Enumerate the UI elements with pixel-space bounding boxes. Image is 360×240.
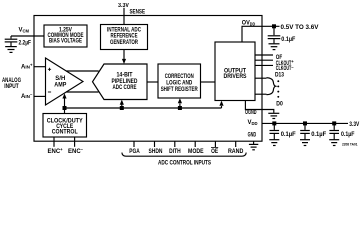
svg-text:GENERATOR: GENERATOR bbox=[110, 40, 138, 46]
wire GND pin bbox=[253, 141, 255, 144]
block: internal ADC reference generator bbox=[101, 25, 148, 50]
svg-text:ADC CORE: ADC CORE bbox=[113, 85, 137, 91]
block: correction logic and shift register bbox=[158, 64, 201, 98]
wire OGND bbox=[245, 101, 273, 113]
wire ENC- pin bbox=[74, 137, 76, 147]
node VDD junction 1 bbox=[272, 121, 276, 125]
svg-text:SHIFT REGISTER: SHIFT REGISTER bbox=[161, 87, 198, 93]
wire MODE pin bbox=[194, 141, 196, 147]
svg-text:PIPELINED: PIPELINED bbox=[112, 79, 139, 85]
svg-text:OVDD: OVDD bbox=[242, 20, 256, 26]
wire ENC+ pin bbox=[53, 137, 55, 147]
block: 1.25V common mode bias voltage bbox=[44, 25, 87, 47]
wire AIN- bbox=[34, 95, 46, 97]
wire VCM bbox=[11, 35, 44, 37]
svg-text:0.1µF: 0.1µF bbox=[281, 132, 296, 138]
node VDD junction 3 bbox=[332, 121, 336, 125]
svg-text:SHDN: SHDN bbox=[149, 149, 163, 155]
wire clock to output drivers bbox=[219, 101, 223, 108]
svg-text:INTERNAL ADC: INTERNAL ADC bbox=[107, 28, 142, 34]
svg-text:CONTROL: CONTROL bbox=[52, 129, 78, 135]
capacitor 0.1uF #1 bbox=[270, 125, 297, 139]
svg-text:PGA: PGA bbox=[129, 149, 140, 155]
node junction at ADC core clock bbox=[120, 106, 124, 110]
wire RAND pin bbox=[235, 141, 237, 147]
wire PGA pin bbox=[133, 141, 135, 147]
node junction at correction clock bbox=[178, 106, 182, 110]
svg-text:DITH: DITH bbox=[169, 149, 181, 155]
svg-text:OGND: OGND bbox=[245, 110, 257, 116]
wire VDD rail bbox=[262, 122, 348, 124]
wire clock to correction logic bbox=[178, 98, 182, 108]
wire OF pin bbox=[255, 54, 273, 56]
wire D13 pin bbox=[255, 77, 267, 79]
svg-text:RAND: RAND bbox=[228, 149, 244, 155]
svg-text:0.1µF: 0.1µF bbox=[281, 37, 295, 43]
node ANALOG INPUT bbox=[2, 78, 21, 90]
ground OGND bbox=[268, 113, 279, 118]
svg-text:ADC CONTROL INPUTS: ADC CONTROL INPUTS bbox=[158, 161, 211, 167]
wire ADC core to correction logic bbox=[147, 81, 158, 83]
chip outline U1 bbox=[34, 16, 262, 142]
svg-text:REFERENCE: REFERENCE bbox=[111, 34, 138, 40]
node clock junction bbox=[63, 106, 67, 110]
svg-text:0.1µF: 0.1µF bbox=[311, 132, 326, 138]
svg-text:LOGIC AND: LOGIC AND bbox=[166, 81, 193, 87]
wire OVDD bbox=[242, 26, 280, 42]
wire clock rail bbox=[65, 107, 222, 109]
wire correction logic to output drivers bbox=[201, 81, 216, 83]
capacitor 0.1uF #2 bbox=[300, 125, 326, 139]
ground for OVDD cap bbox=[269, 44, 280, 50]
svg-text:DRIVERS: DRIVERS bbox=[224, 74, 247, 80]
node VDD junction 2 bbox=[303, 121, 307, 125]
brace data bus bbox=[267, 78, 276, 95]
wire CLKOUT+ pin bbox=[255, 59, 273, 61]
wire CLKOUT- pin bbox=[255, 64, 273, 66]
node OVDD junction bbox=[272, 24, 276, 28]
svg-text:3.3V: 3.3V bbox=[349, 122, 359, 128]
svg-text:ENC–: ENC– bbox=[68, 147, 84, 155]
block: clock/duty cycle control bbox=[43, 114, 87, 138]
node bus dots bbox=[277, 80, 279, 98]
svg-text:VDD: VDD bbox=[248, 120, 258, 126]
wire S/H to ADC core (top differential) bbox=[66, 70, 99, 72]
wire clock to ADC core bbox=[120, 100, 124, 108]
block: output drivers bbox=[215, 42, 255, 101]
node 3.3V SENSE supply bbox=[118, 3, 145, 15]
svg-text:0.5V TO 3.6V: 0.5V TO 3.6V bbox=[281, 25, 319, 31]
svg-text:VCM: VCM bbox=[19, 27, 30, 33]
wire SENSE to reference generator bbox=[123, 8, 125, 25]
capacitor 2.2uF bbox=[5, 36, 32, 46]
svg-text:SENSE: SENSE bbox=[130, 9, 146, 15]
svg-text:BIAS VOLTAGE: BIAS VOLTAGE bbox=[49, 38, 82, 44]
svg-text:2.2µF: 2.2µF bbox=[19, 40, 32, 46]
wire clock control to S/H amp bbox=[62, 93, 66, 113]
wire OE pin bbox=[214, 141, 216, 147]
svg-text:ENC+: ENC+ bbox=[48, 147, 64, 155]
node OE bbox=[211, 147, 218, 154]
block: 14-bit pipelined ADC core bbox=[93, 64, 148, 100]
ground cap 1 bbox=[269, 140, 279, 146]
ground cap 3 bbox=[329, 140, 339, 146]
op-amp S/H AMP bbox=[46, 58, 84, 105]
wire AIN+ bbox=[34, 66, 46, 68]
wire DITH pin bbox=[174, 141, 176, 147]
wire D0 pin bbox=[255, 93, 267, 95]
ground GND bbox=[249, 144, 258, 149]
svg-text:S/H: S/H bbox=[55, 76, 65, 82]
svg-text:GND: GND bbox=[248, 132, 257, 138]
svg-text:CORRECTION: CORRECTION bbox=[165, 74, 194, 80]
svg-text:D0: D0 bbox=[276, 101, 283, 107]
wire reference generator to ADC core bbox=[122, 50, 126, 65]
svg-text:14-BIT: 14-BIT bbox=[117, 73, 133, 79]
ground cap 2 bbox=[300, 140, 310, 146]
svg-text:D13: D13 bbox=[275, 73, 285, 79]
svg-text:0.1µF: 0.1µF bbox=[341, 132, 355, 138]
wire SHDN pin bbox=[154, 141, 156, 147]
svg-text:MODE: MODE bbox=[188, 149, 204, 155]
svg-text:INPUT: INPUT bbox=[4, 84, 19, 90]
svg-text:AIN+: AIN+ bbox=[21, 63, 33, 71]
capacitor 0.1uF #3 bbox=[329, 125, 354, 139]
svg-text:AMP: AMP bbox=[54, 82, 66, 88]
svg-text:2208 TA01: 2208 TA01 bbox=[342, 143, 358, 147]
svg-text:AIN–: AIN– bbox=[21, 92, 33, 100]
svg-text:CLKOUT–: CLKOUT– bbox=[276, 64, 295, 72]
ground for 2.2uF bbox=[5, 47, 17, 53]
capacitor 0.1uF at OVDD bbox=[268, 28, 296, 43]
brace ADC control inputs bbox=[122, 153, 246, 157]
svg-text:OE: OE bbox=[211, 149, 218, 155]
wire S/H to ADC core (bottom differential) bbox=[66, 91, 98, 93]
